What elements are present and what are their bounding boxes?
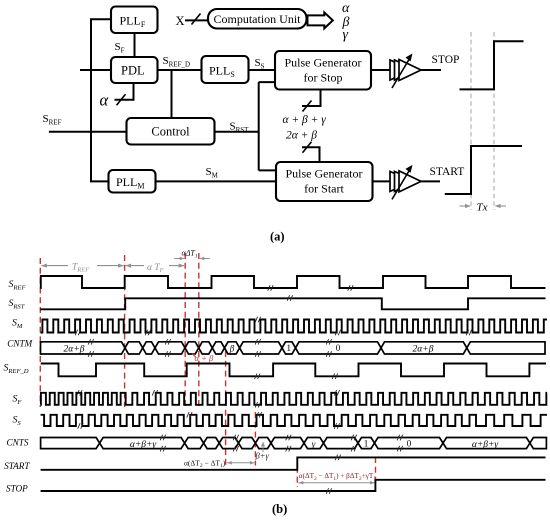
svg-text:START: START xyxy=(4,461,30,471)
svg-text:STOP: STOP xyxy=(6,484,28,494)
guide red dashed line 8 (STOP rise) xyxy=(375,457,377,487)
svg-text:Tx: Tx xyxy=(477,202,488,214)
guide red dashed line 3 (alpha*T_F end) xyxy=(184,253,186,407)
waveform START edge xyxy=(445,146,522,194)
bus slash on 2alpha+beta wire xyxy=(303,142,312,153)
wire buffer output START xyxy=(420,180,440,182)
svg-text:PDL: PDL xyxy=(121,64,145,78)
guide red dashed line 2 (T_REF end) xyxy=(124,255,126,407)
svg-text:α: α xyxy=(100,91,109,110)
wire S_REF input to Control xyxy=(49,131,127,133)
block PLL_M U5 xyxy=(109,170,156,193)
svg-text:for Start: for Start xyxy=(304,182,344,196)
buffer tunable delay (START path) xyxy=(390,171,412,191)
waveform S_REF_D xyxy=(41,364,546,377)
wire S_RST vertical bus xyxy=(258,82,260,170)
guide red dashed line 7 (START rise) xyxy=(296,457,298,487)
svg-text:(a): (a) xyxy=(270,230,285,244)
bus slash on alpha+beta+gamma wire xyxy=(303,101,312,112)
bus slash on X wire xyxy=(192,14,201,25)
svg-text:1: 1 xyxy=(364,439,369,449)
svg-text:β+γ: β+γ xyxy=(255,451,270,461)
dimension arrow Tx left xyxy=(460,205,471,207)
dimension alpha*dT1 arrows xyxy=(174,258,184,260)
block arrow Computation Unit output xyxy=(308,12,333,28)
svg-text:0: 0 xyxy=(336,343,341,353)
waveform S_F clock xyxy=(41,393,547,405)
block PLL_F U1 xyxy=(111,7,158,34)
waveform STOP edge xyxy=(460,41,524,89)
break marks S_REF_D xyxy=(255,374,260,380)
svg-text:γ: γ xyxy=(343,28,349,43)
wire buffer output STOP xyxy=(421,69,442,71)
wire alpha into PDL xyxy=(115,84,134,100)
svg-text:Pulse Generator: Pulse Generator xyxy=(285,56,362,70)
dimension arrow Tx right xyxy=(496,205,507,207)
svg-text:γ: γ xyxy=(312,439,316,449)
svg-text:CNTS: CNTS xyxy=(7,438,29,448)
svg-text:α+β+γ: α+β+γ xyxy=(130,440,157,450)
svg-text:α + β + γ: α + β + γ xyxy=(283,114,327,126)
buffer tunable delay (STOP path) xyxy=(390,60,412,80)
svg-text:START: START xyxy=(430,166,465,178)
break marks CNTS xyxy=(160,435,165,441)
block PLL_S U3 xyxy=(202,56,249,83)
annotation beta+gamma pointer (gray arrow up) xyxy=(261,442,265,447)
guide red dashed line 6 (CNTS boundary) xyxy=(254,412,256,466)
block Pulse Generator for Stop U6 xyxy=(275,51,371,90)
break marks START xyxy=(335,455,340,461)
svg-text:X: X xyxy=(176,14,185,28)
waveform S_M clock xyxy=(41,320,548,333)
gray dashed marker line left (Tx) xyxy=(470,32,472,210)
break marks S_REF xyxy=(268,285,273,291)
svg-text:β: β xyxy=(229,344,235,354)
dimension alpha(dT2-dT1) arrow xyxy=(227,462,255,464)
waveform S_REF xyxy=(40,276,545,288)
svg-text:CNTM: CNTM xyxy=(7,339,33,349)
guide red dashed line 1 (S_REF rise) xyxy=(39,258,41,407)
wire S_RST into Stop generator xyxy=(259,81,276,83)
wire Stop generator to buffer xyxy=(370,69,391,71)
dimension alpha*T_F arrow xyxy=(126,265,144,267)
block PDL U2 xyxy=(111,57,158,83)
svg-text:1: 1 xyxy=(286,343,291,353)
wire Start generator to buffer xyxy=(372,180,392,182)
waveform S_RST xyxy=(40,298,545,309)
wire PLL_S to Pulse Generator for Stop (S_S) xyxy=(248,69,276,71)
wire bus to PLL_F xyxy=(90,18,111,20)
svg-text:α: α xyxy=(342,1,350,16)
wire alpha+beta+gamma into Stop generator xyxy=(302,91,321,107)
break marks S_M xyxy=(75,330,80,336)
wire Control to S_RST bus xyxy=(214,131,259,133)
bus CNTS xyxy=(41,438,100,449)
bus CNTM xyxy=(41,342,126,354)
guide red dashed line 4 (alpha*dT1 end) xyxy=(198,253,200,407)
dimension arrow (start-stop interval) xyxy=(298,482,374,484)
wire X to Computation Unit xyxy=(185,19,209,21)
wire bus to PLL_M xyxy=(90,180,109,182)
svg-text:2α + β: 2α + β xyxy=(286,130,317,142)
wire PLL_M to Pulse Generator for Start (S_M) xyxy=(155,180,277,182)
guide red dashed line 5 (S_REF_D fall) xyxy=(225,351,227,466)
svg-text:0: 0 xyxy=(407,439,412,449)
svg-text:Computation Unit: Computation Unit xyxy=(214,12,302,26)
waveform START xyxy=(41,457,546,469)
break marks S_F xyxy=(77,390,82,396)
wire S_REF_D down to Control xyxy=(171,70,173,119)
svg-text:Control: Control xyxy=(151,125,190,139)
block Computation Unit U8 xyxy=(208,9,307,29)
wire 2alpha+beta into Start generator xyxy=(302,147,320,161)
dimension T_REF arrow xyxy=(41,265,68,267)
svg-text:STOP: STOP xyxy=(432,54,460,66)
svg-text:α+β+γ: α+β+γ xyxy=(472,440,499,450)
break marks S_S xyxy=(78,423,83,429)
gray dashed marker line right (Tx) xyxy=(493,32,495,210)
block Pulse Generator for Start U7 xyxy=(276,162,373,201)
svg-text:2α+β: 2α+β xyxy=(64,345,85,355)
wire PDL to PLL_S (S_REF_D) xyxy=(157,69,203,71)
svg-text:2α+β: 2α+β xyxy=(413,345,434,355)
break marks STOP xyxy=(326,488,331,494)
svg-text:Pulse Generator: Pulse Generator xyxy=(286,167,363,181)
wire into PDL left xyxy=(80,69,112,71)
wire bus left vertical (S_REF distribution) xyxy=(90,19,92,181)
waveform S_S clock xyxy=(41,415,547,426)
waveform STOP xyxy=(41,480,546,491)
break marks S_RST xyxy=(287,295,292,301)
block Control U4 xyxy=(127,118,215,145)
svg-text:α + β: α + β xyxy=(195,353,214,363)
svg-text:for Stop: for Stop xyxy=(304,71,343,85)
svg-text:(b): (b) xyxy=(272,502,287,516)
wire S_RST into Start generator xyxy=(259,169,277,171)
wire PLL_F to PDL (S_F) xyxy=(134,32,136,58)
break marks CNTM xyxy=(88,339,93,345)
bus slash on alpha wire xyxy=(117,94,126,105)
